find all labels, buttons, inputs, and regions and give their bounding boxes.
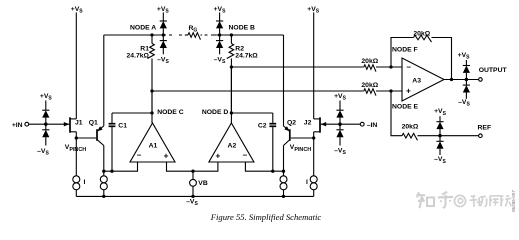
wire: -VS bottom rail (76, 195, 313, 197)
clamp diode -IN input lower (336, 124, 343, 145)
junction dot at output clamp (465, 78, 468, 81)
wire: node C to A3 plus input (through 20k) (152, 90, 364, 92)
node junction: C1 bottom (110, 170, 113, 173)
capacitor C2 (258, 113, 276, 171)
wire: right +VS rail down to J2 drain (313, 12, 315, 119)
wire: node B row (right diode clamp to Q2 emitter) (216, 34, 283, 36)
wire: dashed RG pin segments (right) (205, 34, 215, 36)
clamp diode +IN input upper (42, 101, 49, 125)
node junction: VB top (191, 170, 194, 173)
clamp diode node A upper (160, 12, 167, 35)
wire: J1 source to current source / Q1 base (76, 132, 96, 138)
transistor Q1 (PNP) (89, 120, 104, 146)
wire: R1 bottom through node C to A1 output (151, 91, 153, 123)
wire: A3 output (444, 79, 479, 81)
junction dot at node B clamp (218, 33, 221, 36)
op-amp A1 (130, 123, 175, 162)
node junction: output clamp (465, 78, 468, 81)
resistor 20k (plus input) (364, 89, 376, 96)
transistor Q2 (PNP) (284, 120, 297, 146)
node junction: right CS on -VS rail (282, 195, 285, 198)
node junction: node C (150, 111, 153, 114)
voltage source VB (190, 171, 208, 196)
clamp diode +IN input lower (42, 124, 49, 145)
wire: node C to C1 top (112, 112, 152, 114)
node junction: Q2 collector / A2 minus (282, 170, 285, 173)
node junction: left CS on -VS rail (102, 195, 105, 198)
node junction: C2 bottom (271, 170, 274, 173)
clamp diode REF lower (436, 136, 443, 155)
node junction: R2 bottom tap to A3 minus (230, 65, 233, 68)
wire: feedback path, minus input up over A3 (391, 38, 414, 68)
node junction: Q1 collector / A1 minus (102, 170, 105, 173)
node junction: node A (150, 33, 153, 36)
junction dot at node A clamp (162, 33, 165, 36)
current source I (under J1) (73, 138, 80, 196)
clamp diode output lower (463, 80, 470, 99)
clamp diode node A lower (160, 35, 167, 54)
wire: A2 plus input to VB node (193, 162, 218, 171)
wire: -IN to J2 gate (321, 123, 361, 125)
current source under Q2 collector (280, 171, 287, 196)
node junction: VB on -VS rail (191, 195, 194, 198)
junction dot at +IN input clamp (44, 123, 47, 126)
wire: dashed RG pin segments (left) (169, 34, 182, 36)
node junction: -IN clamp tap (338, 123, 341, 126)
wire: node D to A3 minus input (through 20k) (231, 66, 363, 68)
JFET J1 (64, 117, 83, 132)
wire: Q1 emitter up to node A row (103, 35, 105, 126)
wire: +IN to J1 gate (28, 123, 69, 125)
figure caption (150, 212, 382, 222)
resistor R2 24.7k (227, 35, 259, 113)
capacitor C1 (109, 113, 128, 171)
clamp diode -IN input upper (336, 101, 343, 125)
wire: R2 bottom through node D to A2 output (230, 67, 232, 123)
node junction: +IN clamp tap (44, 123, 47, 126)
resistor RG (external gain resistor) (185, 34, 188, 36)
wire: A1 plus input to VB node (167, 162, 194, 171)
junction dot at -IN input clamp (338, 123, 341, 126)
wire: A1 minus input stub (104, 162, 138, 171)
resistor 20k feedback (414, 35, 432, 42)
clamp diode REF upper (436, 116, 443, 136)
node junction: output feedback (450, 78, 453, 81)
wire: Q2 emitter up to node B row (283, 35, 285, 126)
svg-text:06286-057: 06286-057 (511, 190, 516, 212)
wire: Q2 collector down to A2 minus rail (283, 146, 285, 172)
node junction: node B (230, 33, 233, 36)
node junction: A3 minus / feedback (389, 65, 392, 68)
JFET J2 (304, 117, 326, 132)
current source under Q1 collector (100, 171, 107, 196)
wire: A2 minus input stub (245, 162, 283, 171)
clamp diode node B lower (216, 35, 223, 54)
wire: node E down to REF resistor (391, 91, 402, 136)
op-amp A2 (209, 123, 254, 162)
current source I (under J2) (310, 138, 317, 196)
clamp diode node B upper (216, 12, 223, 35)
wire: node D to C2 top (231, 112, 272, 114)
node junction: R1 bottom tap to A3 plus (150, 89, 153, 92)
wire: left +VS rail down to J1 drain (75, 12, 77, 119)
junction dot at REF clamp (438, 134, 441, 137)
node junction: A3 plus / node E (389, 89, 392, 92)
wire: J2 source to current source / Q2 base (291, 132, 314, 138)
node junction: J1 source / Q1 base (75, 136, 78, 139)
op-amp A3 (402, 58, 444, 101)
clamp diode output upper (463, 60, 470, 80)
wire: Q1 collector down to A1 minus rail (103, 146, 105, 172)
resistor 20k (minus input) (364, 65, 376, 72)
node junction: node D (230, 111, 233, 114)
resistor 20k to REF (402, 133, 417, 140)
wire: node A row (Q1 emitter to gain-resistor left) (104, 34, 166, 36)
resistor R1 24.7k (127, 35, 155, 113)
node junction: J2 source / Q2 base (312, 136, 315, 139)
node junction: REF clamp (438, 134, 441, 137)
